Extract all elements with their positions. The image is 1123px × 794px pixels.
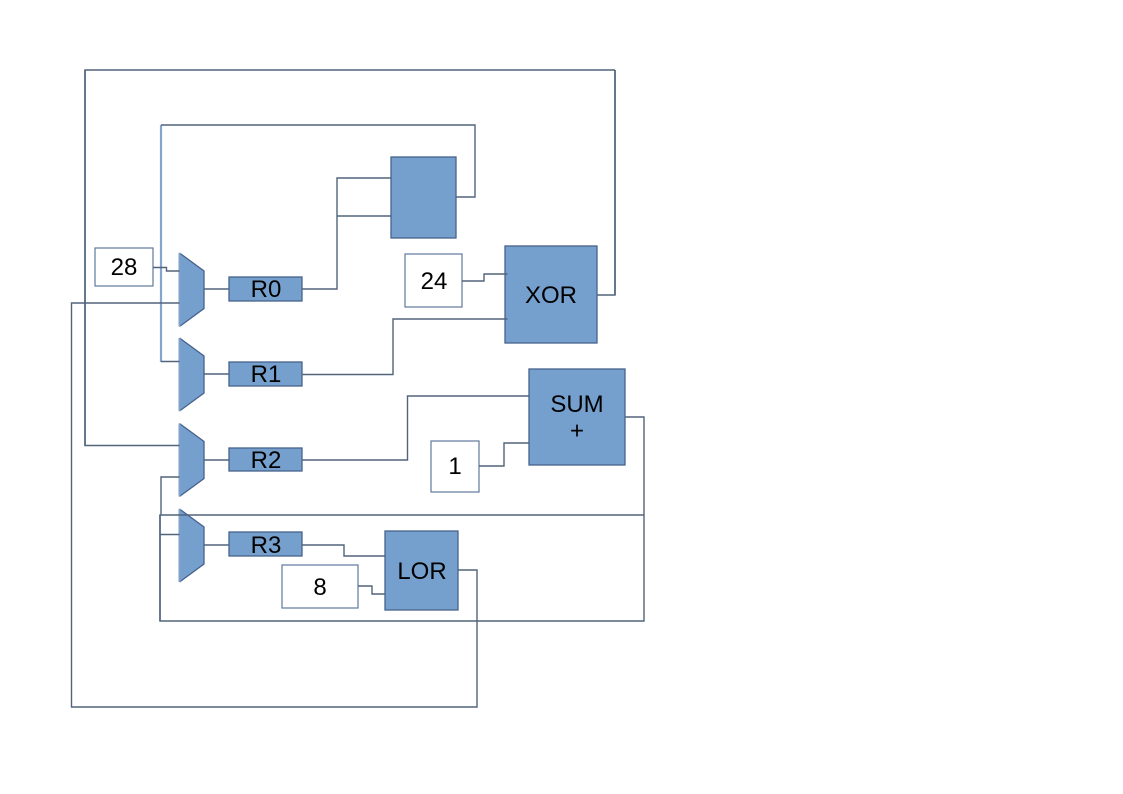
register R1 bbox=[229, 362, 302, 386]
mux M2 bbox=[180, 338, 205, 411]
constant box 8 bbox=[282, 565, 358, 608]
mux M1 bbox=[180, 253, 205, 327]
wire mux M3 to R2 bbox=[204, 459, 229, 461]
svg-text:8: 8 bbox=[313, 574, 326, 601]
mux M4 bbox=[180, 509, 205, 582]
wire mux M1 to R0 bbox=[204, 288, 229, 290]
shifter box (unlabeled) bbox=[391, 157, 456, 238]
constant box 28 bbox=[95, 248, 153, 286]
wire SUM output feedback rectangle bbox=[160, 417, 644, 621]
LOR unit bbox=[385, 531, 458, 610]
svg-text:R2: R2 bbox=[251, 447, 282, 474]
wire mux M4 to R3 bbox=[204, 544, 229, 546]
mux M3 bbox=[180, 424, 205, 497]
wire mux M2 input stub bbox=[161, 361, 180, 363]
constant box 1 bbox=[431, 441, 479, 492]
wire R0 to shifter box upper input bbox=[302, 178, 391, 289]
XOR unit bbox=[505, 246, 597, 343]
wire tap to mux M3 lower input bbox=[161, 477, 180, 515]
wire mux M2 to R1 bbox=[204, 373, 229, 375]
svg-text:+: + bbox=[570, 418, 584, 445]
wire R1 to XOR lower input bbox=[302, 319, 508, 375]
wire branch to shifter box lower input bbox=[337, 215, 391, 217]
SUM unit bbox=[529, 369, 625, 465]
register R3 bbox=[229, 532, 302, 556]
register R0 bbox=[229, 277, 302, 301]
svg-text:24: 24 bbox=[421, 268, 448, 295]
svg-text:R1: R1 bbox=[251, 361, 282, 388]
svg-text:SUM: SUM bbox=[550, 391, 603, 418]
wire vertical light outer loop right bbox=[614, 70, 616, 295]
wire outer loop top and left to mux M3 bbox=[85, 70, 615, 446]
wire 8 to LOR lower input bbox=[358, 586, 385, 594]
constant box 24 bbox=[405, 254, 462, 307]
svg-text:LOR: LOR bbox=[397, 558, 446, 585]
register R2 bbox=[229, 448, 302, 471]
wire vertical light outer loop left bbox=[84, 70, 86, 446]
svg-text:R3: R3 bbox=[251, 532, 282, 559]
wire shifter box output to corner bbox=[161, 125, 475, 197]
wire vertical light from corner to mux M2 bbox=[160, 125, 162, 362]
wire LOR output loop to mux M1 bbox=[72, 303, 478, 707]
wire vertical light feedback left bbox=[159, 515, 161, 621]
wire XOR output to outer loop corner bbox=[597, 70, 615, 295]
wire 1 to SUM lower input bbox=[479, 443, 529, 466]
wire R2 to SUM upper input bbox=[302, 396, 529, 460]
svg-text:1: 1 bbox=[448, 453, 461, 480]
wire tap to mux M4 input bbox=[160, 534, 180, 536]
svg-text:XOR: XOR bbox=[525, 282, 577, 309]
svg-text:28: 28 bbox=[111, 254, 138, 281]
wire 24 to XOR upper input bbox=[462, 274, 508, 281]
svg-text:R0: R0 bbox=[251, 276, 282, 303]
wire 28 to mux M1 bbox=[153, 268, 180, 272]
wire R3 to LOR upper input bbox=[302, 545, 385, 556]
